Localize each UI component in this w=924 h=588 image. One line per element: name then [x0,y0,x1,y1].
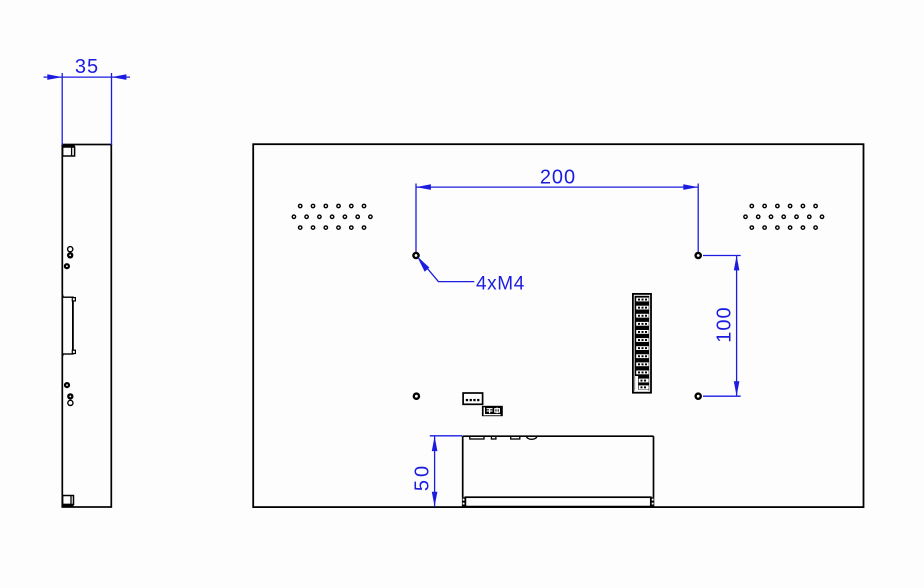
vesa hole top-left [413,253,418,258]
connector J2 (black) [482,406,503,416]
dimension 200 line [416,186,698,188]
stand top port 2 [491,436,496,439]
side view body [62,145,111,508]
dimension 100 line [736,256,738,397]
dimension 50 extension line [430,435,462,437]
speaker grille right [744,204,824,229]
svg-text:100: 100 [714,306,736,342]
dimension 50 line [434,436,436,506]
dimension 200 right arrow [683,184,698,190]
stand top port 1 [470,436,484,439]
stand box left foot [462,497,466,507]
svg-text:35: 35 [75,56,99,78]
dimension 35 left arrow [47,74,62,80]
vesa hole top-right [696,253,701,258]
side view recess groove [62,294,75,358]
vesa hole bottom-right [696,394,701,399]
dimension 200 extension lines [416,184,698,253]
dimension 35 extension lines [62,73,111,145]
side view top clip [62,144,75,156]
dimension 50 top arrow [432,436,438,451]
stand box [463,436,654,506]
svg-text:4xM4: 4xM4 [476,274,525,295]
dimension 35 right arrow [112,74,127,80]
dimension 35 line [44,76,131,78]
svg-text:50: 50 [412,463,434,491]
vesa hole bottom-left [414,394,419,399]
side view bottom clip [62,496,73,508]
dimension 100 top arrow [734,256,740,271]
side view screw pair lower [64,382,74,406]
stand top port 4 (dc jack) [527,436,537,439]
side view screw pair upper [64,247,74,270]
connector J1 (4-pin) [463,393,483,404]
rear panel outline [253,144,863,507]
stand box right foot [651,497,655,507]
terminal strip connector [633,294,651,393]
4xM4 leader arrow [417,256,474,281]
speaker grille left [292,204,372,229]
svg-text:200: 200 [540,167,576,189]
dimension 100 bottom arrow [734,381,740,396]
dimension 100 extension lines [703,256,741,397]
dimension 50 bottom arrow [432,492,438,507]
stand top port 3 [511,436,520,439]
dimension 200 left arrow [416,184,431,190]
